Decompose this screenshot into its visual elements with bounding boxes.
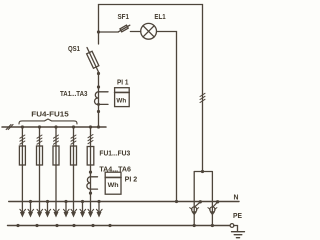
breaker SF1 body bbox=[120, 25, 128, 32]
node dot N link left bbox=[199, 200, 202, 203]
arrowhead feeder 2 bbox=[37, 209, 43, 217]
arrowhead N tap 1 bbox=[28, 209, 34, 217]
switch-fuse QS1 body bbox=[87, 51, 99, 68]
cable mark feeder 4 bbox=[71, 135, 76, 144]
fuse FU4 bbox=[19, 146, 25, 165]
svg-text:Wh: Wh bbox=[108, 182, 119, 189]
ground bbox=[232, 232, 245, 238]
wire N tap arrow 2 stem bbox=[47, 202, 49, 212]
node dot above TA1 bbox=[97, 85, 100, 88]
svg-text:PI 1: PI 1 bbox=[117, 78, 129, 87]
svg-text:N: N bbox=[234, 193, 239, 202]
node dot bus drop 4 bbox=[72, 125, 75, 128]
node dot PE 5 bbox=[91, 224, 94, 227]
feeder drop 3 wire bbox=[55, 127, 57, 212]
node dot bus drop FU1 bbox=[89, 125, 92, 128]
node dot bus drop 2 bbox=[38, 125, 41, 128]
node dot N tap 2 bbox=[46, 200, 49, 203]
svg-text:TA4...TA6: TA4...TA6 bbox=[99, 164, 131, 173]
node dot below TA6 bbox=[89, 192, 92, 195]
arrowhead N tap 4 bbox=[80, 209, 86, 217]
node dot N tap 1 bbox=[29, 200, 32, 203]
node dot QS1 bottom terminal bbox=[97, 72, 100, 75]
node dot PE arrester left bbox=[193, 224, 196, 227]
breaker SF1 blade bbox=[118, 25, 129, 32]
arrowhead N tap 2 bbox=[45, 209, 51, 217]
svg-text:EL1: EL1 bbox=[154, 12, 165, 21]
node dot PE 6 bbox=[108, 224, 111, 227]
wire N tap arrow 4 stem bbox=[82, 202, 84, 212]
wire N tap arrow 1 stem bbox=[30, 202, 32, 212]
fuse FU13 bbox=[71, 146, 77, 165]
node dot bus main feed bbox=[97, 125, 100, 128]
arrowhead feeder 3 bbox=[54, 209, 60, 217]
svg-text:SF1: SF1 bbox=[118, 12, 130, 21]
fuse FU10 bbox=[53, 146, 59, 165]
wire SF1 branch segment bbox=[99, 31, 119, 33]
svg-text:PI 2: PI 2 bbox=[125, 174, 138, 183]
lamp EL1 bbox=[141, 23, 157, 39]
node dot below TA3 bbox=[97, 110, 100, 113]
node dot N tap 4 bbox=[81, 200, 84, 203]
switch-fuse QS1 blade bbox=[87, 48, 99, 73]
cable mark feeder 3 bbox=[54, 135, 59, 144]
brace over FU4-FU15 group bbox=[19, 119, 77, 124]
wire main drop to bus bbox=[98, 74, 100, 128]
wire N tap arrow 5 stem bbox=[98, 202, 100, 212]
wire top feed loop from incoming riser to right riser bbox=[99, 5, 203, 172]
node dot N tap 3 bbox=[64, 200, 67, 203]
wire N link diagonal left bbox=[194, 202, 200, 207]
node dot PE 4 bbox=[72, 224, 75, 227]
svg-text:PE: PE bbox=[233, 211, 242, 220]
bus PE bbox=[8, 225, 230, 227]
bus main distribution bbox=[2, 126, 106, 128]
feeder drop 2 wire bbox=[39, 127, 41, 212]
fuse FU7 bbox=[37, 146, 43, 165]
cable mark feeder FU1 bbox=[88, 135, 93, 144]
node dot PE 2 bbox=[35, 224, 38, 227]
node junction dot at SF1 branch bbox=[97, 30, 100, 33]
feeder drop FU1-FU3 wire bbox=[90, 127, 92, 212]
current transformer TA4...TA6 bbox=[87, 177, 98, 189]
svg-text:Wh: Wh bbox=[116, 98, 126, 105]
wire lamp to N bus via right drop bbox=[157, 32, 177, 202]
node dot PE 1 bbox=[16, 224, 19, 227]
node dot N tap 5 bbox=[97, 200, 100, 203]
arrowhead feeder 1 bbox=[20, 209, 26, 217]
terminal PE open circle bbox=[230, 224, 234, 228]
node dot above TA4 bbox=[89, 171, 92, 174]
node dot bus drop 1 bbox=[21, 125, 24, 128]
svg-text:FU4-FU15: FU4-FU15 bbox=[31, 110, 68, 119]
node dot PE arrester right bbox=[211, 224, 214, 227]
wire PE to ground bbox=[234, 226, 238, 232]
feeder drop 4 wire bbox=[73, 127, 75, 212]
node dot lamp return on N bus bbox=[175, 200, 178, 203]
arrowhead feeder 4 bbox=[71, 209, 77, 217]
arrowhead N tap 3 bbox=[64, 209, 70, 217]
wire N link diagonal right bbox=[212, 202, 217, 208]
arrowhead N tap 5 bbox=[97, 209, 103, 217]
svg-text:TA1...TA3: TA1...TA3 bbox=[60, 89, 88, 98]
arrester FV left bbox=[190, 207, 199, 216]
svg-text:QS1: QS1 bbox=[68, 44, 80, 53]
wire main incoming drop upper bbox=[98, 32, 100, 44]
bus N bbox=[9, 201, 239, 203]
wire SF1 to lamp bbox=[130, 31, 140, 33]
cable mark feeder 1 bbox=[20, 135, 25, 144]
meter PI2 box bbox=[105, 172, 121, 194]
arrester FV right bbox=[208, 207, 217, 216]
current transformer TA1...TA3 bbox=[95, 92, 108, 106]
svg-text:FU1...FU3: FU1...FU3 bbox=[99, 148, 130, 157]
arrowhead feeder FU1 bbox=[88, 209, 94, 217]
fuse FU1...FU3 bbox=[87, 147, 94, 166]
wire N tap arrow 3 stem bbox=[65, 202, 67, 212]
node dot bus drop 3 bbox=[54, 125, 57, 128]
meter PI1 box bbox=[115, 88, 130, 107]
node dot riser to split bar bbox=[201, 170, 204, 173]
cable mark right riser bbox=[200, 93, 205, 102]
feeder drop 1 wire bbox=[21, 127, 23, 212]
wire split bar to arrester drops bbox=[194, 172, 212, 226]
node dot N link right bbox=[216, 200, 219, 203]
bus continuation slash mark bbox=[6, 125, 13, 130]
cable mark feeder 2 bbox=[37, 135, 42, 144]
node dot PE 3 bbox=[55, 224, 58, 227]
